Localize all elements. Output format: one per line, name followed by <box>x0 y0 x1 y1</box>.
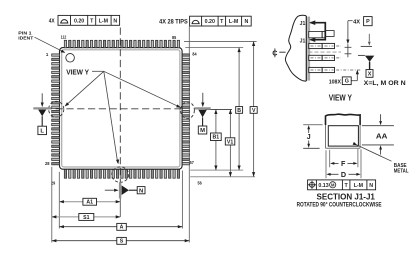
datum X leader <box>369 62 371 70</box>
svg-text:N: N <box>113 18 117 24</box>
svg-text:L-M: L-M <box>99 18 109 24</box>
datum N arrow <box>105 189 114 191</box>
svg-text:A: A <box>120 225 124 231</box>
callout 4X P leader <box>348 20 353 22</box>
view Y callout ellipse bottom <box>112 167 129 182</box>
datum M extension line <box>205 108 232 110</box>
datum L triangle <box>38 110 46 117</box>
pin 1 ident circle <box>66 54 75 63</box>
package body inner edge ring <box>62 50 180 167</box>
svg-text:B: B <box>237 108 241 114</box>
svg-text:N: N <box>369 183 373 189</box>
sectioned lead (view Y) <box>309 31 326 37</box>
extension line AA bottom <box>362 144 394 146</box>
dimension box B <box>236 107 243 114</box>
dimension line B <box>238 48 240 107</box>
datum M triangle <box>198 110 206 118</box>
svg-text:L: L <box>40 129 44 135</box>
dimension line A <box>59 226 182 228</box>
extension line B bottom <box>190 169 243 171</box>
datum M target bar <box>195 107 211 109</box>
datum X box <box>366 70 373 78</box>
svg-text:SECTION J1-J1: SECTION J1-J1 <box>317 193 376 202</box>
lead tip reference line <box>361 45 372 47</box>
svg-text:0.20: 0.20 <box>74 18 84 24</box>
datum L box <box>38 126 47 134</box>
extension line V bottom <box>190 176 255 178</box>
view Y callout ellipse right <box>181 102 195 119</box>
right pin column (pins 57-84) <box>182 54 189 165</box>
arrow to lead tip line <box>368 34 370 41</box>
svg-text:108X: 108X <box>329 80 342 86</box>
svg-text:IDENT: IDENT <box>18 35 33 41</box>
top pin row (pins 85-112) <box>64 40 179 48</box>
lead section base metal rect <box>328 126 358 146</box>
svg-text:57: 57 <box>190 160 195 165</box>
datum M leader <box>202 117 204 126</box>
svg-text:VIEW Y: VIEW Y <box>329 93 353 102</box>
datum M arrow <box>202 93 204 103</box>
dimension line F <box>334 162 339 164</box>
svg-text:VIEW Y: VIEW Y <box>66 67 89 76</box>
svg-text:V: V <box>252 108 256 114</box>
svg-text:G: G <box>345 79 349 85</box>
svg-text:A1: A1 <box>86 200 93 206</box>
svg-text:D: D <box>341 170 346 179</box>
extension line F right <box>357 149 359 168</box>
bottom pin row (pins 29-56) <box>64 170 179 179</box>
view Y callout ellipse left <box>49 101 64 117</box>
extension line A left <box>58 172 60 229</box>
svg-text:0.20: 0.20 <box>205 19 215 25</box>
datum box G <box>342 77 351 85</box>
extension line J top <box>303 124 322 126</box>
dimension line A1 <box>59 201 120 203</box>
svg-text:M: M <box>200 128 205 134</box>
feature control frame 3 (position 0.13 M T L-M N) <box>308 180 376 190</box>
pin 1 ident leader <box>35 37 65 52</box>
svg-text:85: 85 <box>172 35 177 40</box>
svg-text:4X 28 TIPS: 4X 28 TIPS <box>159 19 188 26</box>
svg-text:J1: J1 <box>300 39 306 45</box>
svg-text:P: P <box>366 19 370 25</box>
dimension line J <box>308 128 310 134</box>
extension line J bottom <box>303 147 319 149</box>
svg-text:F: F <box>341 159 346 168</box>
datum M box <box>198 126 207 134</box>
extension line AA top <box>362 125 394 127</box>
dimension line V1 <box>229 109 231 137</box>
dimension line S1 <box>52 216 121 218</box>
dimension box A1 <box>83 198 97 205</box>
dimension arrows AA <box>380 114 382 121</box>
package edge line (view Y) <box>305 16 307 81</box>
svg-text:112: 112 <box>61 35 67 40</box>
svg-text:M: M <box>331 182 335 187</box>
svg-text:4X: 4X <box>353 20 360 26</box>
dimension line S <box>52 240 190 242</box>
svg-text:28: 28 <box>45 161 50 166</box>
datum L arrow <box>41 93 43 102</box>
svg-text:X=L, M OR N: X=L, M OR N <box>364 80 406 87</box>
lead section outer (plating) <box>326 114 361 125</box>
svg-text:L-M: L-M <box>229 19 239 25</box>
lead 2 (view Y) <box>309 55 335 60</box>
svg-text:ROTATED 90° COUNTERCLOCKWISE: ROTATED 90° COUNTERCLOCKWISE <box>297 201 382 209</box>
break-line blob (package edge) <box>285 15 306 81</box>
svg-text:J1: J1 <box>300 21 306 27</box>
feature control frame 1 (profile 0.20 T L-M N) <box>58 15 120 25</box>
extension line V top <box>184 40 257 42</box>
left pin column (pins 1-28) <box>52 54 60 165</box>
svg-text:56: 56 <box>198 181 203 186</box>
feature control frame 2 (profile 0.20 T L-M N) <box>190 16 252 26</box>
dimension box S1 <box>79 214 94 221</box>
datum L target bar <box>33 107 51 109</box>
extension line S right <box>188 26 190 242</box>
extension line D right <box>360 149 362 178</box>
svg-text:S: S <box>120 239 124 245</box>
callout 108X G leader <box>351 80 357 82</box>
centerline dashes inside view Y <box>309 51 342 53</box>
extension line S left <box>51 167 53 243</box>
dimension box A <box>117 223 127 230</box>
svg-text:AA: AA <box>376 132 388 141</box>
svg-text:0.13: 0.13 <box>318 183 328 189</box>
extension line F left <box>329 150 331 168</box>
view Y leader to left ellipse <box>66 71 104 105</box>
package edge shading (view Y) <box>307 17 310 81</box>
lead 1 (view Y) <box>309 43 335 48</box>
section cut line J1-J1 <box>311 23 326 40</box>
vertical centerline <box>119 28 121 184</box>
centerline dash <box>279 51 285 53</box>
dimension box S <box>117 237 127 244</box>
dimension box V1 <box>225 138 235 146</box>
view Y leader stub <box>92 70 104 72</box>
datum box P <box>364 17 373 26</box>
lead 3 (view Y) <box>309 67 335 72</box>
svg-text:S1: S1 <box>83 215 89 221</box>
datum X reference line <box>358 54 365 56</box>
svg-text:B1: B1 <box>212 135 219 141</box>
extension line D left <box>325 150 327 178</box>
dimension box V <box>250 107 257 114</box>
extension line B top <box>185 47 243 49</box>
svg-text:J: J <box>307 134 311 141</box>
datum X triangle <box>365 56 374 62</box>
view Y leader to bottom ellipse <box>104 71 118 163</box>
svg-text:X: X <box>368 71 372 77</box>
datum N target bar <box>119 182 121 198</box>
datum N triangle <box>122 185 129 195</box>
package body outline <box>60 48 183 170</box>
view Y leader to right ellipse <box>104 71 180 107</box>
dimension line B1 <box>215 109 217 133</box>
svg-text:84: 84 <box>192 52 197 57</box>
svg-text:N: N <box>244 19 248 25</box>
datum N leader <box>129 189 137 191</box>
svg-text:V1: V1 <box>227 139 233 145</box>
svg-text:N: N <box>139 188 143 194</box>
extension line A right <box>181 171 183 229</box>
horizontal centerline <box>34 108 181 110</box>
svg-text:L-M: L-M <box>354 183 364 189</box>
datum L leader <box>41 116 43 126</box>
dimension line V <box>253 41 255 106</box>
dimension line D <box>330 173 339 175</box>
svg-text:4X: 4X <box>49 19 55 25</box>
dimension box B1 <box>211 133 222 141</box>
datum N box <box>137 187 145 195</box>
base metal leader <box>357 145 392 161</box>
svg-text:METAL: METAL <box>394 168 409 174</box>
